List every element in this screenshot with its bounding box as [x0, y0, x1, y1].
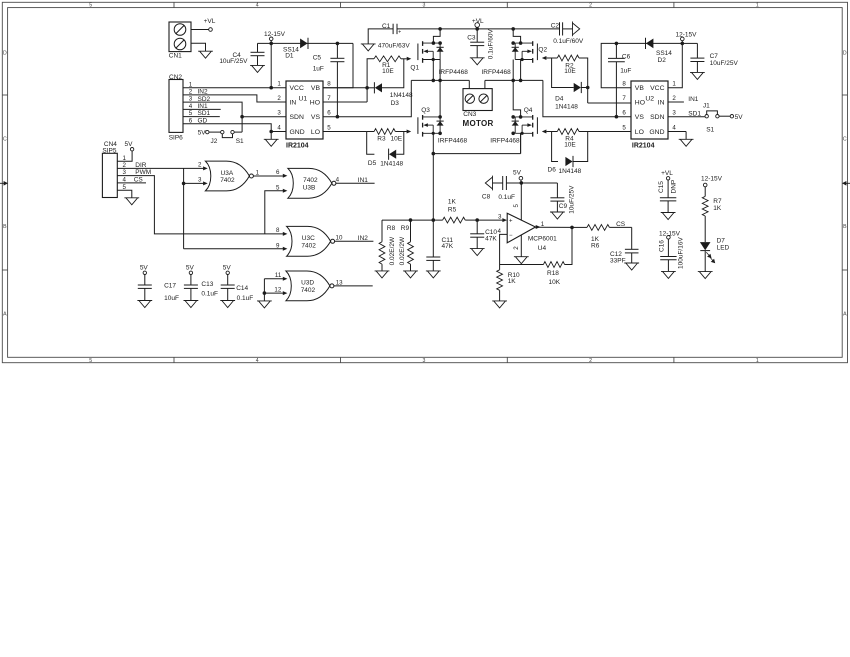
resistor R5 1K: [443, 217, 466, 223]
wire U1 HO to gate network: [323, 101, 367, 103]
svg-text:1K: 1K: [508, 278, 517, 285]
ground at R10: [492, 301, 507, 308]
wire VCC rail left: [258, 42, 354, 44]
ground at CN4: [124, 198, 139, 205]
svg-text:12-15V: 12-15V: [659, 230, 681, 237]
svg-text:CN3: CN3: [463, 111, 476, 118]
svg-text:U2: U2: [645, 95, 654, 102]
svg-text:47K: 47K: [485, 236, 497, 243]
ground at D7: [698, 272, 713, 279]
op-amp power pin 5 from 5V: [520, 183, 522, 220]
wire CN4 pin5 to ground: [117, 190, 132, 198]
svg-text:8: 8: [327, 81, 331, 88]
ground at C9: [550, 212, 565, 219]
resistor R1 10E gate: [367, 59, 374, 102]
svg-text:10uF: 10uF: [164, 295, 179, 302]
svg-text:IN1: IN1: [358, 177, 369, 184]
svg-text:SD1: SD1: [688, 110, 701, 117]
svg-text:IRFP4468: IRFP4468: [490, 138, 520, 145]
svg-text:2: 2: [198, 162, 202, 169]
capacitor C4 10uF/25V: [257, 43, 259, 52]
svg-text:MCP6001: MCP6001: [528, 236, 557, 243]
svg-text:3: 3: [198, 177, 202, 184]
svg-text:7402: 7402: [301, 243, 316, 250]
svg-text:+: +: [398, 30, 401, 36]
svg-text:C16: C16: [659, 240, 666, 252]
svg-text:100uF/16V: 100uF/16V: [678, 237, 685, 269]
svg-text:4: 4: [256, 358, 259, 364]
svg-text:13: 13: [336, 279, 343, 286]
ground at C7: [690, 72, 705, 79]
supply 5V op-amp: [519, 176, 523, 180]
capacitor C7 10uF/25V: [682, 42, 697, 44]
svg-text:U1: U1: [299, 95, 308, 102]
ground at U1 GND: [270, 132, 272, 140]
diode D6 1N4148 antiparallel: [552, 132, 558, 162]
capacitor C11 47K: [432, 220, 434, 257]
svg-text:A: A: [843, 312, 847, 318]
svg-text:S1: S1: [236, 138, 244, 145]
ground at C13: [184, 301, 199, 308]
ground at U2 GND: [679, 139, 694, 146]
svg-text:0.1uF: 0.1uF: [237, 295, 254, 302]
resistor R9 0.02E/2W: [410, 220, 412, 242]
connector CN4 SIP5: [102, 153, 117, 197]
svg-text:10: 10: [336, 235, 343, 242]
logic gate U3C 7402: [287, 226, 331, 256]
wire phase node A: [411, 79, 469, 81]
svg-text:4: 4: [336, 177, 340, 184]
svg-text:GND: GND: [290, 129, 305, 136]
svg-text:0.1uF/60V: 0.1uF/60V: [488, 29, 495, 60]
wire net IN1 stub at U2 IN: [668, 101, 684, 103]
ground at R8: [375, 271, 390, 278]
svg-text:9: 9: [276, 242, 280, 249]
svg-text:IRFP4468: IRFP4468: [482, 69, 512, 76]
svg-text:0.1uF/60V: 0.1uF/60V: [553, 38, 584, 45]
svg-text:LO: LO: [635, 129, 644, 136]
capacitor C8 0.1uF: [485, 176, 492, 191]
wire net PWM to U3C input 8: [117, 176, 283, 234]
svg-text:HO: HO: [635, 100, 645, 107]
svg-text:SDN: SDN: [290, 114, 304, 121]
diode D1 SS14: [300, 39, 308, 49]
svg-text:IRFP4468: IRFP4468: [438, 138, 468, 145]
svg-text:VS: VS: [635, 114, 645, 121]
jumper J1 switch S1 with 5V right: [705, 115, 708, 118]
diode D5 1N4148 antiparallel: [367, 132, 375, 155]
svg-text:1K: 1K: [713, 205, 722, 212]
svg-text:10E: 10E: [382, 68, 394, 75]
svg-text:C2: C2: [551, 22, 560, 29]
logic gate U3B 7402: [288, 168, 332, 198]
svg-text:C: C: [843, 137, 847, 143]
svg-text:CS: CS: [616, 221, 626, 228]
ground at C17: [137, 301, 152, 308]
supply 12-15V right: [681, 37, 685, 41]
ground at C14: [220, 301, 235, 308]
svg-text:5V: 5V: [735, 114, 744, 121]
svg-text:6: 6: [276, 169, 280, 176]
svg-text:1K: 1K: [448, 199, 457, 206]
transistor Q3 IRFP4468: [422, 115, 424, 120]
svg-text:SD1: SD1: [198, 110, 211, 117]
driver U2 IR2104: [631, 81, 668, 139]
svg-text:D: D: [843, 51, 847, 57]
wire net IN2 from CN2 pin2 to U1 IN: [183, 95, 286, 102]
supply 5V at CN4: [130, 148, 133, 151]
svg-text:HO: HO: [310, 100, 320, 107]
svg-text:5: 5: [513, 204, 520, 208]
svg-text:12-15V: 12-15V: [264, 31, 286, 38]
svg-text:CS: CS: [134, 176, 144, 183]
svg-text:5: 5: [622, 125, 626, 132]
ground at U3D inputs: [257, 301, 272, 308]
wire net SD1 stub at CN2 pin5: [183, 116, 220, 118]
connector CN2 SIP6: [169, 80, 183, 133]
logic gate U3A 7402: [205, 161, 249, 191]
svg-text:1: 1: [277, 81, 281, 88]
svg-text:3: 3: [277, 110, 281, 117]
svg-text:D7: D7: [717, 237, 726, 244]
svg-text:1: 1: [672, 81, 676, 88]
svg-text:VCC: VCC: [650, 85, 664, 92]
svg-text:1: 1: [541, 221, 545, 228]
svg-text:IN: IN: [658, 100, 665, 107]
svg-text:SIP5: SIP5: [102, 148, 116, 155]
capacitor C2 0.1uF/60V: [559, 22, 561, 35]
svg-text:GD: GD: [198, 117, 208, 124]
svg-text:DIR: DIR: [135, 162, 147, 169]
wire sense node row: [382, 219, 443, 221]
svg-text:SIP6: SIP6: [169, 135, 183, 142]
wire CN4 pin1 to 5V: [117, 151, 132, 161]
svg-text:C3: C3: [467, 34, 476, 41]
svg-text:R18: R18: [547, 270, 559, 277]
svg-text:10uF/25V: 10uF/25V: [569, 185, 576, 214]
svg-text:10K: 10K: [549, 279, 561, 286]
wire U3D output stub: [334, 285, 373, 287]
svg-text:C17: C17: [164, 282, 176, 289]
wire U3A output to U3B input 6: [253, 175, 283, 177]
svg-text:Q4: Q4: [524, 107, 533, 114]
svg-text:47K: 47K: [442, 243, 454, 250]
svg-text:7402: 7402: [301, 287, 316, 294]
diode D7 LED: [704, 216, 706, 242]
wire net GD from CN2 pin6 to U1 GND: [183, 124, 271, 132]
svg-text:12-15V: 12-15V: [701, 176, 723, 183]
svg-text:1N4148: 1N4148: [555, 103, 578, 110]
svg-text:5V: 5V: [513, 169, 522, 176]
svg-text:2: 2: [589, 358, 592, 364]
wire U2 GND to ground: [668, 131, 686, 133]
svg-text:0.1uF: 0.1uF: [498, 194, 515, 201]
svg-text:D2: D2: [658, 57, 667, 64]
supply +VL at CN1: [209, 28, 213, 32]
svg-text:SDN: SDN: [650, 114, 664, 121]
ground at C1: [361, 44, 376, 51]
resistor R2 10E gate: [542, 56, 547, 60]
resistor R7 1K: [703, 183, 707, 187]
svg-text:IRFP4468: IRFP4468: [439, 69, 469, 76]
svg-text:C8: C8: [482, 194, 491, 201]
ground at C3: [470, 58, 485, 65]
wire U1 VB right stub already drawn: [323, 87, 367, 89]
wire net SD2 from CN2 pin3 to U1 SDN: [183, 102, 242, 117]
svg-text:R3: R3: [377, 135, 386, 142]
svg-text:5V: 5V: [223, 264, 232, 271]
svg-text:10E: 10E: [391, 136, 403, 143]
svg-text:VS: VS: [311, 114, 321, 121]
svg-text:MOTOR: MOTOR: [463, 119, 494, 128]
ground at op-amp V-: [514, 257, 529, 264]
svg-text:U4: U4: [538, 245, 547, 252]
wire U1 VS loop to phase A: [323, 80, 411, 116]
wire U2 HO row: [588, 102, 631, 104]
wire U3C output net IN2: [335, 240, 374, 242]
svg-text:4: 4: [277, 125, 281, 132]
resistor R6 1K output: [572, 226, 587, 228]
svg-text:C7: C7: [710, 53, 719, 60]
svg-text:U3C: U3C: [302, 235, 315, 242]
svg-text:DNP: DNP: [671, 180, 678, 194]
op-amp U4 MCP6001: [507, 213, 535, 243]
svg-text:J2: J2: [211, 138, 218, 145]
logic gate U3D 7402: [286, 271, 330, 301]
svg-text:D: D: [3, 51, 7, 57]
svg-text:10uF/25V: 10uF/25V: [710, 60, 739, 67]
svg-text:+VL: +VL: [661, 170, 673, 177]
svg-text:C9: C9: [559, 203, 568, 210]
ground at CN1: [198, 51, 213, 58]
svg-text:Q1: Q1: [410, 64, 419, 71]
wire U3B output net IN1: [336, 182, 375, 184]
ground at C16: [661, 271, 676, 278]
svg-text:8: 8: [622, 81, 626, 88]
svg-text:5: 5: [89, 358, 92, 364]
wire net SD1 to jumper J1: [668, 116, 705, 118]
wire U3D inputs tied to ground: [263, 279, 265, 301]
transistor Q2 IRFP4468: [532, 41, 534, 46]
svg-text:LO: LO: [311, 129, 320, 136]
svg-text:U3B: U3B: [303, 185, 316, 192]
svg-text:D6: D6: [548, 166, 557, 173]
svg-text:VB: VB: [635, 85, 645, 92]
ground at C15: [661, 213, 676, 220]
svg-text:0.02E/2W: 0.02E/2W: [389, 236, 396, 265]
transistor Q4 IRFP4468: [532, 115, 534, 120]
svg-text:6: 6: [622, 110, 626, 117]
svg-text:LED: LED: [717, 245, 730, 252]
supply 12-15V left: [269, 37, 273, 41]
svg-text:D1: D1: [285, 53, 294, 60]
capacitor C6 1uF bootstrap: [615, 42, 619, 46]
svg-text:5V: 5V: [125, 141, 134, 148]
svg-text:C14: C14: [236, 285, 248, 292]
capacitor C12 33PF: [631, 227, 633, 249]
svg-text:D4: D4: [555, 96, 564, 103]
wire +VL rail: [397, 28, 560, 30]
op-amp driver U1 IR2104: [286, 81, 323, 139]
resistor R10 1K: [499, 265, 501, 270]
svg-text:1N4148: 1N4148: [390, 92, 413, 99]
svg-text:5V: 5V: [198, 130, 207, 137]
svg-text:C5: C5: [313, 55, 322, 62]
svg-text:D3: D3: [391, 100, 400, 107]
svg-text:33PF: 33PF: [610, 258, 626, 265]
wire CN1 pin1 to +VL: [191, 29, 209, 31]
diode D3 1N4148 antiparallel: [365, 86, 369, 90]
svg-text:CN2: CN2: [169, 74, 182, 81]
wire U2 VS loop to phase B: [543, 80, 631, 116]
diode D4 1N4148 antiparallel: [552, 58, 558, 88]
svg-text:3: 3: [422, 358, 425, 364]
svg-text:2: 2: [589, 3, 592, 9]
svg-text:1N4148: 1N4148: [380, 160, 403, 167]
svg-text:3: 3: [498, 214, 502, 221]
svg-text:+VL: +VL: [204, 18, 216, 25]
svg-text:2: 2: [672, 95, 676, 102]
resistor R3 10E gate: [323, 131, 367, 133]
wire rail to U1 VB: [323, 43, 353, 87]
connector CN1 power terminal block: [169, 22, 191, 52]
svg-text:+VL: +VL: [472, 18, 484, 25]
wire DIR branch to U3A input 3 and U3C input 9: [183, 168, 185, 248]
svg-text:SD2: SD2: [198, 96, 211, 103]
capacitor C1 470uF/63V: [368, 29, 393, 44]
capacitor C3 0.1uF/60V: [476, 29, 478, 42]
wire U2 VB to bootstrap rail: [601, 43, 682, 87]
svg-text:IN1: IN1: [688, 96, 699, 103]
wire CN2 pin1 to U1 VCC: [183, 87, 286, 89]
svg-text:IN2: IN2: [358, 235, 369, 242]
svg-text:VCC: VCC: [290, 85, 304, 92]
resistor R18 10K feedback: [500, 264, 544, 266]
capacitor C9 10uF/25V: [521, 182, 557, 184]
svg-text:1uF: 1uF: [313, 65, 324, 72]
svg-text:Q2: Q2: [538, 46, 547, 53]
wire net IN1 stub at CN2 pin4: [183, 108, 221, 110]
svg-text:1: 1: [756, 3, 759, 9]
svg-text:R6: R6: [591, 243, 600, 250]
svg-text:U3D: U3D: [301, 280, 314, 287]
svg-text:5V: 5V: [186, 264, 195, 271]
capacitor C13 0.1uF: [189, 271, 192, 274]
wire PWM branch to U3B input 5: [265, 191, 283, 234]
svg-text:12: 12: [274, 287, 281, 294]
svg-text:7: 7: [622, 95, 626, 102]
svg-text:R8: R8: [387, 225, 396, 232]
svg-text:10uF/25V: 10uF/25V: [219, 58, 248, 65]
svg-text:IN1: IN1: [198, 103, 209, 110]
svg-text:5: 5: [327, 125, 331, 132]
wire U2 VCC: [668, 43, 682, 87]
svg-text:1N4148: 1N4148: [559, 168, 582, 175]
svg-text:6: 6: [327, 110, 331, 117]
svg-text:11: 11: [275, 272, 282, 279]
svg-text:S1: S1: [706, 127, 714, 134]
svg-text:IN2: IN2: [198, 89, 209, 96]
wire 12-15V down to VCC: [270, 43, 272, 87]
svg-text:J1: J1: [703, 103, 710, 110]
svg-text:1uF: 1uF: [620, 68, 631, 75]
svg-text:U3A: U3A: [221, 170, 234, 177]
svg-text:2: 2: [277, 95, 281, 102]
resistor R4 10E gate: [542, 130, 547, 134]
svg-text:7: 7: [327, 95, 331, 102]
svg-text:C1: C1: [382, 23, 391, 30]
svg-text:GND: GND: [649, 129, 664, 136]
op-amp output pin1: [536, 225, 541, 229]
svg-text:−: −: [509, 233, 513, 239]
wire net DIR to U3A input 2: [117, 167, 203, 169]
svg-text:4: 4: [256, 3, 259, 9]
capacitor C15 DNP: [666, 177, 669, 180]
svg-text:IN: IN: [290, 100, 297, 107]
svg-text:2: 2: [513, 246, 520, 250]
svg-text:D5: D5: [368, 160, 377, 167]
ground at C11: [426, 271, 441, 278]
capacitor C16 100uF/16V: [667, 236, 671, 240]
svg-text:8: 8: [276, 227, 280, 234]
wire phase node B: [485, 79, 543, 81]
svg-text:C6: C6: [622, 53, 631, 60]
svg-text:3: 3: [422, 3, 425, 9]
ground at C12: [624, 263, 639, 270]
svg-text:B: B: [843, 224, 847, 230]
svg-text:CN1: CN1: [169, 52, 182, 59]
diode D2 SS14: [646, 39, 654, 49]
capacitor C5 1uF bootstrap: [336, 42, 340, 46]
svg-text:C15: C15: [658, 181, 665, 193]
svg-text:3: 3: [672, 110, 676, 117]
svg-text:A: A: [3, 312, 7, 318]
svg-text:7402: 7402: [220, 177, 235, 184]
wire to op-amp non-inverting input: [477, 219, 503, 221]
svg-text:5: 5: [89, 3, 92, 9]
connector CN3 MOTOR terminal: [468, 80, 470, 88]
svg-text:1: 1: [256, 169, 260, 176]
svg-text:Q3: Q3: [421, 107, 430, 114]
wire CN1 pin2 to ground: [191, 43, 206, 51]
wire net CS stub at CN4 pin4: [117, 182, 146, 184]
op-amp power pin 2 to ground: [520, 235, 522, 257]
wire shunt node row: [433, 153, 520, 155]
svg-text:IR2104: IR2104: [286, 143, 309, 150]
svg-text:PWM: PWM: [135, 169, 151, 176]
ground at R9: [403, 271, 418, 278]
svg-text:0.1uF: 0.1uF: [201, 291, 218, 298]
svg-text:0.02E/2W: 0.02E/2W: [399, 236, 406, 265]
svg-text:470uF/63V: 470uF/63V: [378, 43, 410, 50]
svg-text:B: B: [3, 224, 7, 230]
ground at C2 rotated: [563, 28, 573, 30]
svg-text:IR2104: IR2104: [632, 143, 655, 150]
svg-text:7402: 7402: [303, 177, 318, 184]
ground at C4: [250, 65, 265, 72]
svg-text:10E: 10E: [564, 141, 576, 148]
svg-text:R5: R5: [448, 207, 457, 214]
svg-text:VB: VB: [311, 85, 321, 92]
ground at C10: [470, 249, 485, 256]
transistor Q1 IRFP4468: [422, 41, 424, 46]
capacitor C10 47K filter: [476, 220, 478, 234]
supply +VL top: [475, 23, 480, 28]
svg-text:C13: C13: [201, 281, 213, 288]
capacitor C14 0.1uF: [226, 271, 229, 274]
resistor R8 0.02E/2W: [381, 220, 383, 242]
svg-text:10E: 10E: [564, 68, 576, 75]
